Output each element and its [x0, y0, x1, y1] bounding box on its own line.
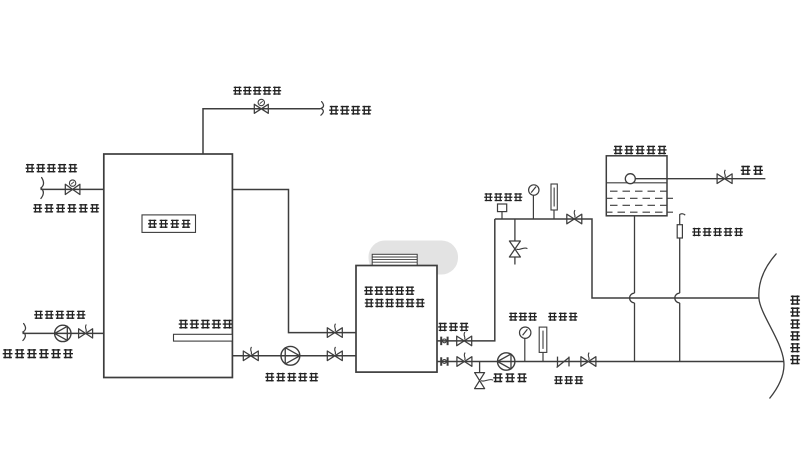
- water flow switch 水流开关: [498, 204, 507, 219]
- label 过滤器: [554, 376, 583, 384]
- label 生活热水供水: [3, 349, 73, 358]
- valve on unit top outlet: [457, 332, 472, 346]
- label 空调末端系统 (vertical): [790, 295, 800, 364]
- automatic exhaust valve 自动排气阀: [677, 214, 685, 238]
- hot water circulation pump 热水循环泵: [281, 346, 300, 365]
- label 自动排气阀: [692, 228, 743, 236]
- pressure gauge on flow line: [532, 195, 534, 219]
- strainer 过滤器: [557, 357, 569, 368]
- break symbol at return inlet: [41, 178, 44, 199]
- tank name box 保温水箱: [142, 215, 196, 233]
- gray highlight blob behind unit top: [369, 241, 459, 275]
- flexible connection (bottom): [441, 357, 447, 366]
- safety valve branch below flow line: [514, 219, 516, 241]
- valve on unit upper inlet pipe: [327, 324, 342, 338]
- fan grille on unit top: [372, 254, 417, 265]
- label 中央空调机组: [365, 299, 425, 308]
- label 热水系统回水: [33, 204, 99, 213]
- label 压力表: [509, 313, 537, 321]
- wire: unit bottom outlet pipe to AC terminal: [437, 361, 784, 363]
- make-up solenoid valve 补水电磁阀: [254, 99, 268, 113]
- return solenoid valve 回水电磁阀: [65, 180, 80, 195]
- wire: pipe tank top to cold water make-up: [203, 109, 321, 154]
- wire: float arm / make-up water inlet pipe: [635, 178, 765, 180]
- label 保温水箱: [148, 220, 190, 228]
- wire: storage tank drain down-comer: [634, 216, 636, 293]
- safety valve: [509, 241, 527, 257]
- wire: tank upper outlet to heat-pump unit inlet: [232, 190, 356, 333]
- break symbol at cold water inlet: [321, 102, 324, 116]
- label 温度计: [548, 313, 577, 321]
- flexible connection (top): [441, 337, 447, 346]
- wire: tank lower outlet to unit via circulation pump: [232, 355, 356, 357]
- make-up valve 补水: [717, 170, 732, 184]
- storage make-up tank 储水补水箱: [606, 156, 673, 216]
- thermometer on supply pipe: [542, 352, 544, 361]
- valve before terminal system: [581, 353, 596, 367]
- label 水流开关: [484, 193, 522, 201]
- wire: unit top outlet up to flow-switch line: [437, 219, 495, 341]
- break symbol at supply outlet: [23, 324, 26, 341]
- booster pump 自动增压泵: [55, 325, 71, 341]
- valve before down-comer: [567, 210, 582, 224]
- temperature probe port rectangle: [174, 334, 233, 341]
- float ball in tank: [625, 174, 635, 184]
- label 温度探测口: [179, 320, 232, 329]
- wire: domestic hot water supply pipe: [23, 332, 104, 334]
- wire: hot water system return pipe: [41, 188, 104, 190]
- heat pump unit box 商用水地暖中央空调机组: [356, 266, 437, 373]
- circulation pump 循环泵: [498, 353, 515, 370]
- pipe jump at storage drain crossing: [630, 293, 635, 303]
- insulated water tank 保温水箱 body: [104, 154, 233, 378]
- drain branch and valve below pipe: [479, 362, 481, 373]
- pipe jump at exhaust drop crossing: [675, 293, 680, 303]
- valve on unit bottom outlet: [457, 353, 472, 367]
- valve after tank lower outlet: [243, 347, 258, 361]
- AC terminal system boundary curve: [759, 254, 784, 399]
- valve after booster pump: [79, 325, 93, 339]
- label 循环泵: [493, 373, 527, 382]
- label 补水电磁阀: [233, 87, 281, 95]
- label 补水: [741, 166, 763, 175]
- label 软连接: [438, 323, 468, 332]
- label 储水补水箱: [613, 146, 666, 155]
- wire: exhaust valve down-comer: [679, 238, 681, 293]
- valve before unit lower inlet: [327, 347, 342, 361]
- wire: flow switch line to terminal supply: [495, 219, 759, 298]
- thermometer on flow line: [553, 210, 555, 219]
- label 商用水地暖: [364, 286, 414, 295]
- label 热水循环泵: [265, 373, 318, 382]
- label 回水电磁阀: [25, 164, 77, 173]
- label 冷水补水: [329, 106, 371, 115]
- pressure gauge on supply pipe: [524, 339, 526, 362]
- label 自动增压泵: [34, 311, 85, 319]
